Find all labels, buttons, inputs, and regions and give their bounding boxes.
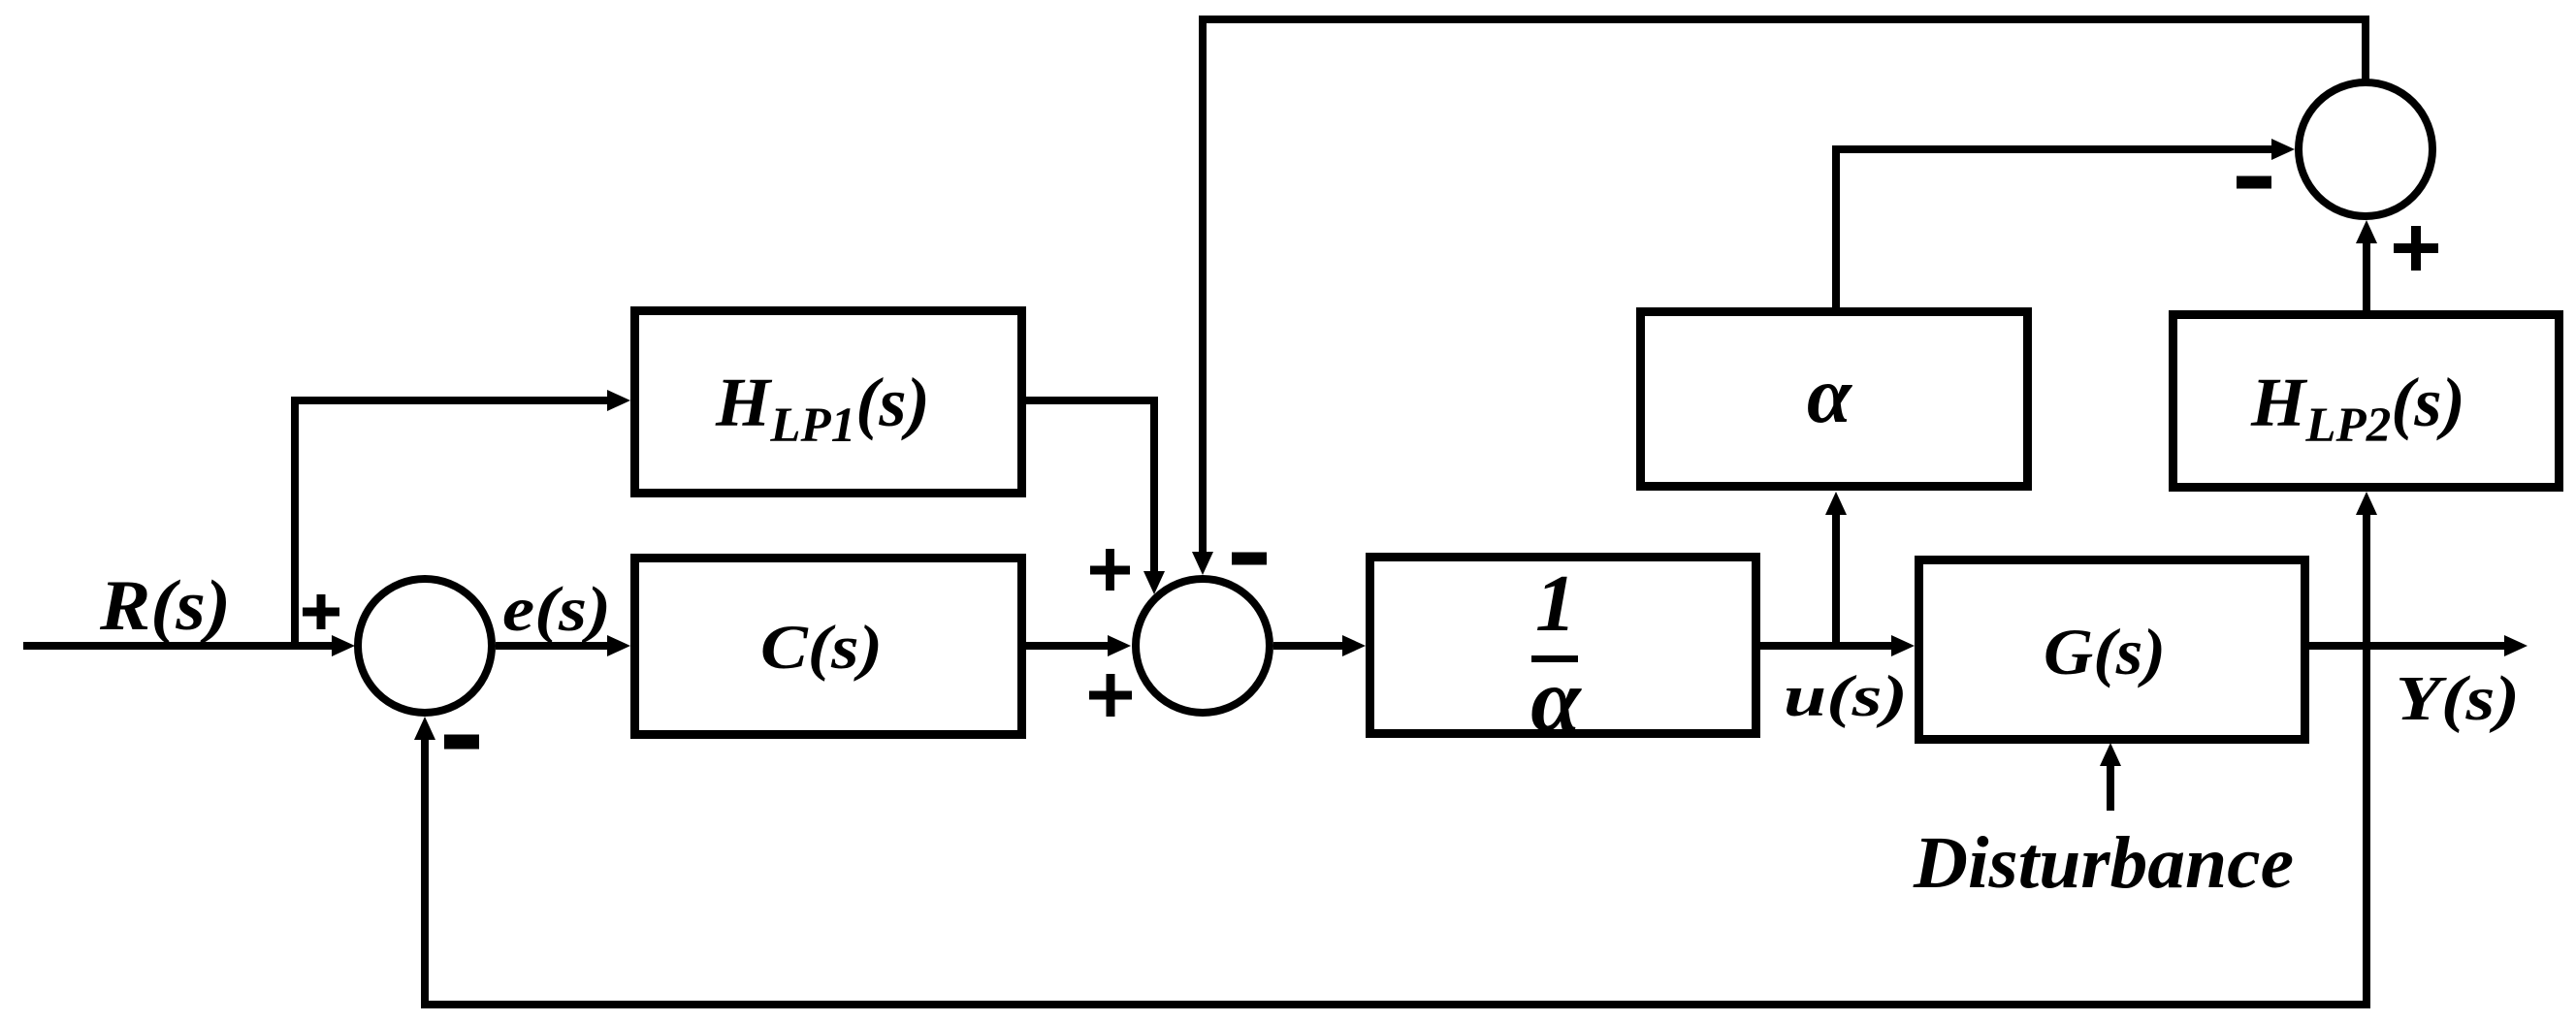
svg-text:1: 1 [1535,559,1576,649]
svg-text:C(s): C(s) [760,613,883,682]
svg-text:e(s): e(s) [502,574,611,645]
svg-text:Y(s): Y(s) [2396,663,2520,734]
svg-text:R(s): R(s) [99,566,231,646]
svg-text:α: α [1530,651,1582,751]
svg-text:u(s): u(s) [1784,664,1908,728]
svg-text:G(s): G(s) [2044,615,2166,688]
svg-text:Disturbance: Disturbance [1913,822,2294,904]
svg-text:α: α [1807,350,1852,439]
